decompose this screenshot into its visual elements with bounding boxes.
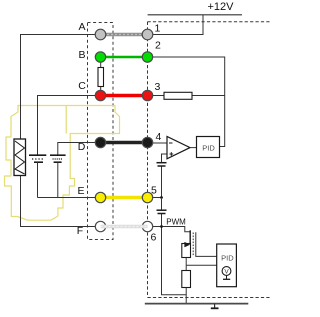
svg-text:2: 2 — [155, 40, 161, 52]
svg-text:E: E — [77, 185, 84, 197]
svg-text:1: 1 — [155, 23, 161, 35]
svg-text:5: 5 — [151, 185, 157, 197]
svg-text:C: C — [78, 80, 86, 92]
svg-text:+12V: +12V — [208, 1, 235, 13]
svg-text:A: A — [78, 21, 85, 33]
svg-text:V: V — [224, 268, 229, 275]
svg-text:3: 3 — [155, 81, 161, 93]
svg-text:D: D — [78, 141, 86, 153]
svg-text:F: F — [77, 225, 83, 237]
svg-text:PID: PID — [221, 254, 234, 263]
svg-text:PID: PID — [202, 143, 215, 152]
svg-text:PWM: PWM — [166, 217, 186, 226]
svg-text:6: 6 — [151, 232, 157, 244]
svg-text:4: 4 — [156, 131, 162, 143]
svg-text:B: B — [78, 49, 85, 61]
